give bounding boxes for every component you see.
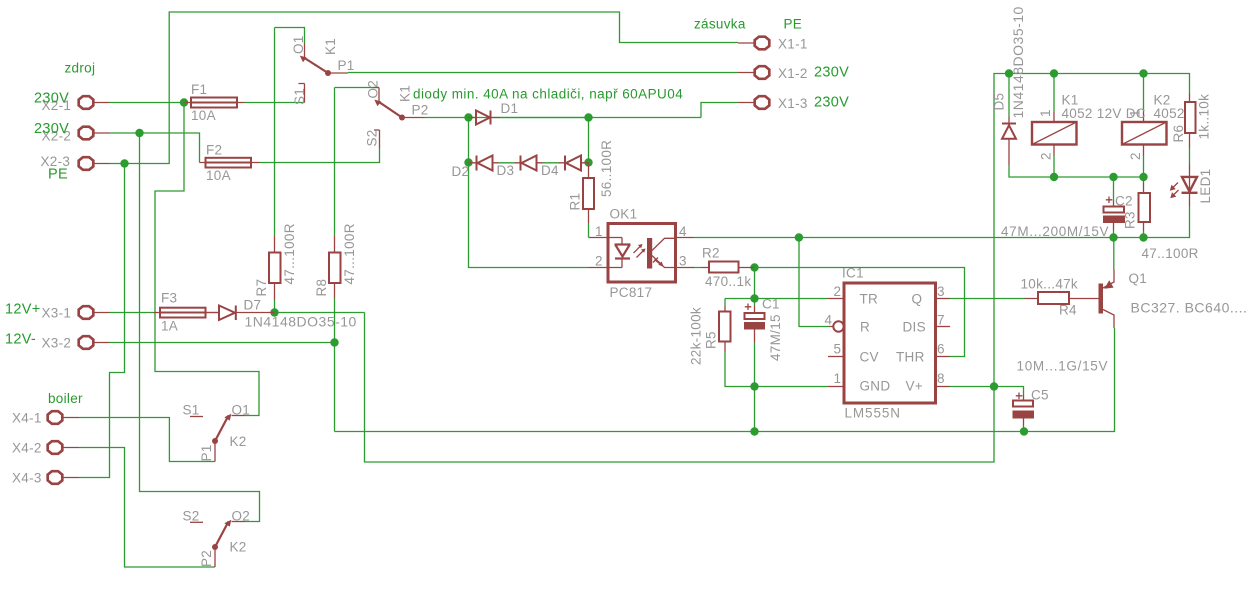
svg-text:4052: 4052 [1154,106,1185,121]
svg-text:1N4148DO35-10: 1N4148DO35-10 [1010,6,1026,118]
svg-text:1: 1 [1038,109,1053,117]
svg-text:D4: D4 [541,163,559,178]
svg-text:zdroj: zdroj [65,61,96,76]
svg-text:diody min. 40A na chladiči, na: diody min. 40A na chladiči, např 60APU04 [413,87,683,102]
svg-text:7: 7 [937,313,945,328]
svg-text:F1: F1 [191,82,207,97]
svg-text:47...100R: 47...100R [342,223,357,284]
svg-text:1: 1 [1128,109,1143,117]
svg-text:47M/15: 47M/15 [768,314,783,361]
svg-text:X4-3: X4-3 [12,471,42,486]
svg-text:CV: CV [860,350,879,365]
svg-text:F2: F2 [206,143,222,158]
svg-text:2: 2 [1128,152,1143,160]
svg-text:K1: K1 [323,38,338,55]
svg-text:LM555N: LM555N [845,406,901,421]
svg-text:22k-100k: 22k-100k [689,307,704,365]
svg-text:S2: S2 [183,509,200,524]
svg-text:IC1: IC1 [842,266,864,281]
svg-text:X3-1: X3-1 [42,306,72,321]
svg-text:X1-2: X1-2 [778,66,808,81]
svg-text:230V: 230V [34,91,69,107]
svg-text:4: 4 [825,313,833,328]
svg-text:BC327. BC640....: BC327. BC640.... [1131,300,1248,316]
svg-text:X3-2: X3-2 [42,336,72,351]
svg-text:3: 3 [937,284,945,299]
svg-text:Q1: Q1 [1129,271,1148,286]
svg-text:10A: 10A [206,168,231,183]
svg-text:R4: R4 [1059,303,1077,318]
svg-text:D3: D3 [497,163,515,178]
svg-text:4: 4 [679,224,687,239]
svg-text:R8: R8 [314,279,329,297]
svg-text:1A: 1A [161,319,178,334]
svg-text:56..100R: 56..100R [599,140,614,197]
svg-text:12V+: 12V+ [5,302,40,318]
svg-text:C1: C1 [762,297,780,312]
svg-text:R3: R3 [1123,211,1138,229]
svg-text:zásuvka: zásuvka [694,17,746,32]
svg-text:V+: V+ [906,379,924,394]
svg-text:6: 6 [937,342,945,357]
svg-text:O2: O2 [366,80,381,99]
svg-text:R1: R1 [568,193,583,211]
svg-text:PE: PE [784,17,803,32]
svg-text:LED1: LED1 [1198,169,1213,204]
svg-text:2: 2 [595,254,603,269]
svg-text:10A: 10A [191,108,216,123]
svg-text:X4-1: X4-1 [12,411,42,426]
svg-text:THR: THR [896,350,925,365]
svg-text:R5: R5 [704,331,719,349]
svg-text:47..100R: 47..100R [1142,246,1199,261]
svg-text:DIS: DIS [903,320,926,335]
svg-text:K1: K1 [398,85,413,102]
svg-text:C2: C2 [1115,194,1133,209]
svg-text:47M...200M/15V: 47M...200M/15V [1001,224,1109,239]
svg-text:X1-3: X1-3 [778,96,808,111]
svg-text:Q: Q [912,292,923,307]
svg-text:S1: S1 [292,88,307,105]
svg-text:R7: R7 [254,279,269,297]
svg-text:2: 2 [834,284,842,299]
svg-text:K2: K2 [230,434,247,449]
svg-text:5: 5 [834,342,842,357]
svg-text:GND: GND [860,379,891,394]
svg-text:1N4148DO35-10: 1N4148DO35-10 [245,314,357,330]
svg-text:10M...1G/15V: 10M...1G/15V [1017,359,1109,374]
svg-text:1: 1 [595,224,603,239]
svg-text:R6: R6 [1171,125,1186,143]
svg-text:R2: R2 [702,246,720,261]
svg-text:D2: D2 [452,164,470,179]
svg-text:K2: K2 [230,540,247,555]
svg-text:P2: P2 [199,550,214,567]
svg-text:C5: C5 [1031,388,1049,403]
svg-text:D7: D7 [244,298,262,313]
svg-text:S2: S2 [365,129,380,146]
svg-text:PE: PE [48,167,68,183]
svg-text:1: 1 [834,371,842,386]
svg-text:R: R [860,320,870,335]
svg-text:O2: O2 [232,509,251,524]
svg-text:X4-2: X4-2 [12,441,42,456]
svg-text:F3: F3 [161,291,177,306]
svg-text:3: 3 [679,254,687,269]
svg-text:230V: 230V [814,95,849,111]
svg-text:12V-: 12V- [5,332,36,348]
svg-text:X1-1: X1-1 [778,37,808,52]
svg-text:O1: O1 [232,403,251,418]
svg-text:2: 2 [1039,152,1054,160]
svg-text:P2: P2 [412,103,429,118]
svg-text:D1: D1 [501,101,519,116]
svg-text:TR: TR [860,292,879,307]
svg-text:PC817: PC817 [610,285,653,300]
svg-text:470..1k: 470..1k [705,274,751,289]
svg-text:47...100R: 47...100R [282,223,297,284]
svg-text:8: 8 [937,371,945,386]
svg-text:boiler: boiler [48,391,83,406]
svg-text:S1: S1 [183,403,200,418]
svg-text:P1: P1 [338,58,355,73]
svg-text:OK1: OK1 [610,207,638,222]
svg-text:1k..10k: 1k..10k [1197,94,1212,140]
svg-text:230V: 230V [34,121,69,137]
svg-text:10k...47k: 10k...47k [1021,277,1078,292]
svg-text:230V: 230V [814,65,849,81]
svg-text:P1: P1 [199,444,214,461]
svg-text:O1: O1 [291,35,306,54]
svg-text:D5: D5 [992,93,1007,111]
